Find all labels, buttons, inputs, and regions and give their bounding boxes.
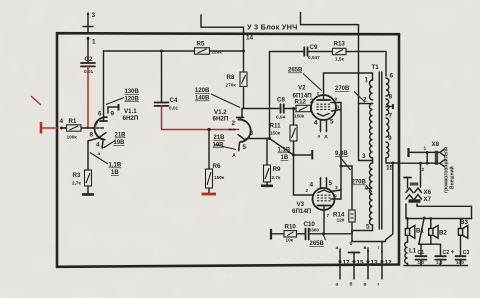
pentode V3 6П14П [310, 177, 342, 234]
node terminal bar (R10 left) [270, 229, 272, 240]
wire external feed to pin 14 [201, 15, 244, 51]
capacitor C10 3300 [305, 229, 307, 240]
resistor R13 1,5к [333, 48, 347, 54]
resistor R10 10к [271, 233, 284, 235]
connector X6 [406, 188, 413, 193]
node cathode voltage callout 1,1В/1В [90, 153, 108, 165]
node pin 17 bottom [339, 249, 341, 279]
wire anode rail [104, 50, 195, 52]
pentode V2 6П14П [311, 73, 341, 139]
resistor R9 2,7к [266, 139, 268, 166]
ground under R9 [261, 185, 273, 188]
node cathode voltage callout 21В/19В [104, 141, 115, 148]
node pin 15 bottom [353, 253, 355, 280]
wire V2 anode to T1 pin1 [324, 73, 373, 80]
capacitor C2 (speaker) [440, 244, 442, 256]
wire down to pin 12 [386, 163, 393, 242]
node anode voltage callout 130В/120В [106, 98, 124, 105]
resistor R1 100к [60, 127, 63, 130]
capacitor C2 [87, 38, 89, 64]
decorative scan grain [0, 0, 1, 1]
node pin 12 bottom [381, 242, 383, 279]
node terminal bar left of X6 [404, 177, 411, 179]
wire shielded joint under X7 [409, 199, 421, 202]
node anode voltage callout 120В/140В [211, 94, 240, 108]
inductor L1 [405, 242, 408, 264]
wire cathode bus V2-V3 [340, 103, 342, 200]
wire red trace C4 to V1.2 grid [162, 106, 234, 130]
wire R13 to T1 pin 6 [346, 52, 386, 77]
frame border of block [57, 33, 399, 267]
resistor R8 270к [243, 51, 245, 72]
speaker B2 [430, 219, 432, 229]
speaker B3 [460, 219, 462, 229]
resistor R5 220к [195, 48, 210, 54]
ground under R6 (red) [202, 193, 217, 196]
node pin1 junction below border [87, 37, 90, 40]
wire external feed to supply rail [301, 13, 359, 161]
wire feedback from cathode node up [270, 52, 305, 139]
wire R14 node to pin12 line [352, 234, 386, 242]
resistor R12 150к [296, 105, 311, 111]
capacitor C1 [419, 218, 424, 244]
connector X7 [406, 195, 413, 200]
wire cathode to splitter node [270, 139, 294, 156]
node pin 13 bottom [367, 248, 369, 279]
node cathode voltage callout 21В/19В (V1.2) [214, 145, 236, 150]
capacitor C3 electrolytic [456, 255, 466, 257]
resistor R3 2,7к [87, 141, 89, 170]
resistor R11 150к [293, 109, 295, 126]
triode V1.1 6Н2П [88, 51, 119, 156]
wire splitter to V3 grid [294, 194, 313, 196]
node input terminal (red) [40, 122, 43, 134]
capacitor C4 [161, 51, 163, 103]
capacitor C9 0,047 [303, 47, 305, 55]
resistor R14 120 [341, 166, 352, 210]
speaker B1 [407, 219, 409, 229]
wire secondary to pin 15 [386, 162, 399, 164]
wire V1.2 cathode node [247, 138, 270, 140]
wire red trace from C2 to grid node [87, 67, 89, 126]
resistor R6 150 [208, 130, 210, 169]
ground under R3 [87, 186, 89, 194]
node splitter terminal bar [294, 154, 313, 156]
wire speaker bus [405, 204, 407, 219]
capacitor C8 0,04 [242, 108, 281, 110]
wire red annotation stroke top-left [32, 97, 41, 105]
node pin3 input terminal [87, 14, 89, 33]
transformer T1 [352, 64, 394, 234]
node anode voltage callout 265В (V2) [303, 74, 322, 92]
triode V1.2 6Н2П [229, 109, 254, 158]
connector X8 [399, 162, 439, 164]
wire bottom bus speakers [404, 265, 468, 267]
